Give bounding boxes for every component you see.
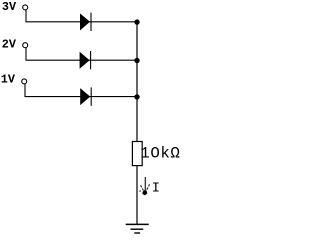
wire resistor to ground bbox=[136, 166, 138, 224]
terminal node 1V bbox=[22, 79, 27, 84]
diode D2 bbox=[80, 51, 91, 69]
svg-text:1V: 1V bbox=[1, 73, 16, 87]
junction row2-bus bbox=[134, 58, 139, 63]
ground bbox=[126, 224, 149, 233]
junction row1-bus bbox=[134, 19, 139, 24]
svg-text:1OkΩ: 1OkΩ bbox=[140, 144, 180, 162]
terminal node 3V bbox=[23, 5, 28, 10]
junction row3-bus bbox=[134, 94, 139, 99]
wire 3V stub bbox=[25, 10, 27, 22]
svg-text:I: I bbox=[152, 181, 160, 197]
label 3V bbox=[2, 0, 17, 14]
label 1V bbox=[1, 73, 16, 87]
wire 3V row to bus bbox=[26, 21, 138, 23]
svg-text:3V: 3V bbox=[2, 0, 17, 14]
current arrow I bbox=[139, 177, 149, 195]
label I bbox=[152, 181, 160, 197]
wire bus vertical bbox=[136, 22, 138, 141]
terminal node 2V bbox=[23, 43, 28, 48]
label 2V bbox=[2, 37, 17, 51]
wire 1V stub bbox=[24, 84, 26, 97]
resistor R1 bbox=[132, 142, 142, 166]
diode D3 bbox=[81, 87, 92, 105]
diode D1 bbox=[80, 13, 91, 31]
wire 1V row to bus bbox=[25, 96, 138, 98]
svg-text:2V: 2V bbox=[2, 37, 17, 51]
value label 10kOhm bbox=[140, 144, 180, 162]
wire 2V row to bus bbox=[26, 59, 138, 61]
wire 2V stub bbox=[25, 48, 27, 61]
